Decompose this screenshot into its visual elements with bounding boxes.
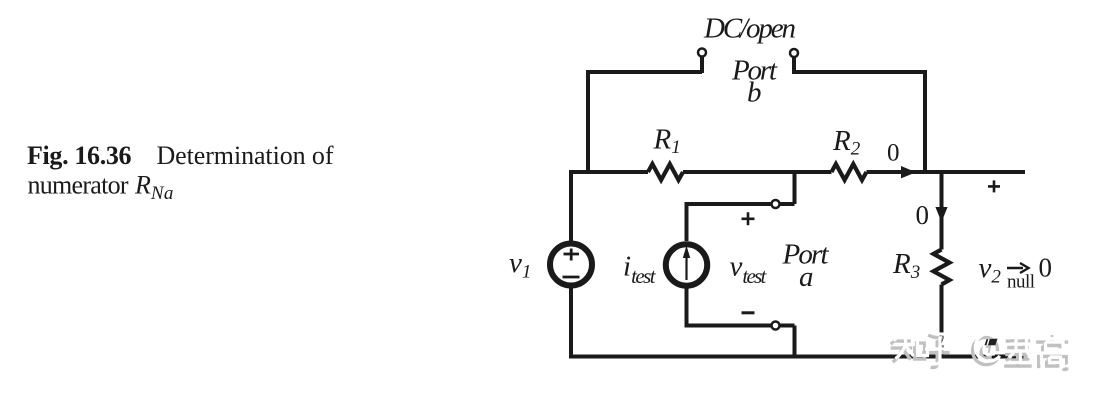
port a plus label [742,212,755,225]
resistor R3 [934,250,950,285]
i_test arrow shaft [685,256,687,280]
svg-text:0: 0 [916,200,930,230]
wire: port a minus lead [685,288,795,357]
svg-text:R2: R2 [832,125,861,160]
port a minus label [742,311,755,314]
port a minus terminal [772,322,780,330]
wire: main horizontal mid segment [683,170,832,174]
wire: v1 top lead [569,172,648,242]
wire: main horizontal right segment to output + [867,170,1026,174]
v1 plus sign [564,249,580,261]
i_test arrowhead [683,246,690,259]
v1 minus sign [563,276,580,279]
svg-text:DC/open: DC/open [703,13,796,45]
null arrow [1007,263,1029,273]
output plus label [988,180,1000,192]
svg-text:null: null [1007,272,1035,293]
resistor R1 [648,164,683,180]
watermark gray shadow [891,335,1068,369]
svg-text:R3: R3 [892,248,920,283]
svg-text:R1: R1 [653,124,681,159]
svg-text:0: 0 [1039,253,1053,283]
wire: port a plus lead [685,172,795,241]
svg-text:b: b [747,77,762,109]
svg-text:0: 0 [887,140,900,167]
switch terminal right (Port b) [790,49,798,57]
svg-text:itest: itest [623,251,657,289]
wire: v1 bottom lead [569,287,573,357]
port a plus terminal [772,200,780,208]
resistor R2 [832,164,867,180]
current source i_test [666,244,707,285]
svg-text:v2: v2 [979,252,1002,288]
wedge slit [987,339,989,345]
voltage source v1 [550,244,592,286]
svg-text:a: a [799,261,814,293]
watermark white overlay [894,332,1072,366]
watermark gray-only stroke (tu mid horizontal of ji) [1011,358,1027,361]
svg-text:Fig. 16.36Determination of: Fig. 16.36Determination of [27,141,334,170]
svg-text:numeratorRNa: numeratorRNa [28,171,174,204]
wire: R3 branch [940,172,944,357]
switch terminal left (Port b) [698,49,706,57]
wire: Port b left vertical [586,57,702,172]
svg-text:vtest: vtest [730,250,768,288]
current arrow after R2 [901,166,916,178]
watermark dark wedge in @ [985,339,998,346]
svg-text:v1: v1 [509,247,531,283]
current arrow into R3 [935,207,947,222]
wire: Port b right side [792,57,925,172]
wire: bottom rail [569,355,1027,359]
